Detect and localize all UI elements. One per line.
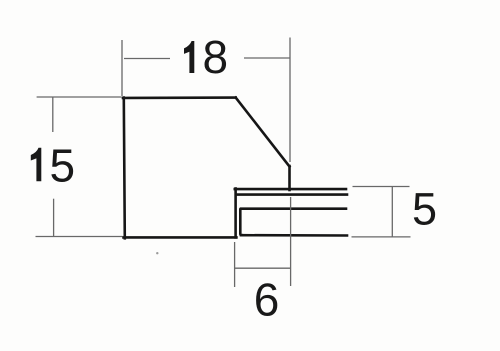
profile top edge xyxy=(123,96,236,99)
dim 18 right extension line xyxy=(289,38,291,163)
rabbet line 3 xyxy=(241,207,346,210)
rabbet line 4 xyxy=(241,234,347,237)
dim 6 right extension line xyxy=(290,197,292,286)
scan speck xyxy=(156,252,158,254)
dim 18 left extension line xyxy=(121,40,123,96)
dim 6 line xyxy=(235,267,291,269)
svg-text:6: 6 xyxy=(254,274,280,326)
profile step vertical xyxy=(234,189,237,238)
dimension label 18 : digit 1 drawn (no foot serif) xyxy=(184,41,194,73)
dim 5 bottom extension line xyxy=(352,236,411,238)
rabbet channel left vertical xyxy=(240,210,241,236)
dim 18 line left segment xyxy=(124,58,170,60)
dim 15 line lower segment xyxy=(53,199,55,237)
dim 5 line xyxy=(391,186,393,238)
profile left edge xyxy=(124,98,125,239)
svg-text:8: 8 xyxy=(203,31,229,83)
dim 6 left extension line xyxy=(234,242,236,287)
rabbet line 1 xyxy=(235,188,346,191)
svg-text:5: 5 xyxy=(412,184,437,235)
dim 15 line upper segment xyxy=(52,98,54,133)
dim 15 top extension line xyxy=(37,96,122,98)
svg-text:5: 5 xyxy=(50,140,76,192)
dim 15 bottom extension line xyxy=(36,236,123,238)
profile right upper vertical xyxy=(288,166,291,190)
profile chamfer diagonal xyxy=(236,98,290,167)
rabbet line 2 xyxy=(237,193,347,196)
dim 5 top extension line xyxy=(353,186,410,188)
dim 18 line right segment xyxy=(244,57,290,59)
profile bottom edge xyxy=(124,236,237,239)
dimension label 15 : digit 1 drawn (no foot serif) xyxy=(31,148,42,182)
